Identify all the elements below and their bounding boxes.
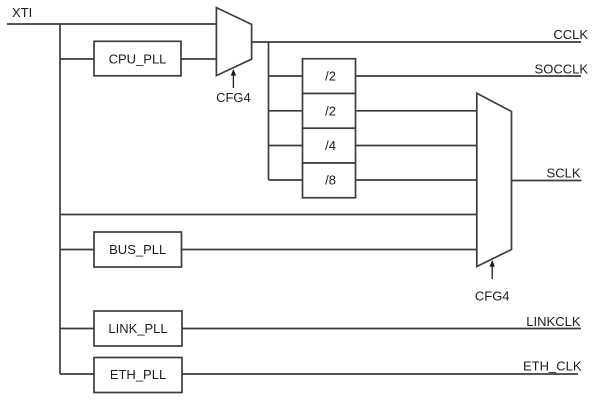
- svg-text:/8: /8: [325, 173, 336, 188]
- wire ETH_CLK net: [182, 373, 578, 375]
- wire XTI trunk vertical: [59, 24, 61, 374]
- wire LINKCLK net: [182, 328, 581, 330]
- block divider /2: [303, 59, 356, 94]
- mux U1: [216, 8, 251, 76]
- block CPU_PLL: [94, 41, 181, 76]
- arrow CFG4 into mux U1: [231, 69, 236, 88]
- block BUS_PLL: [94, 232, 182, 267]
- block ETH_PLL: [94, 358, 182, 393]
- wire BUS_PLL output: [182, 249, 477, 251]
- block divider /8: [303, 163, 356, 198]
- wire CPU_PLL output: [181, 58, 216, 60]
- block LINK_PLL: [94, 311, 182, 346]
- svg-text:/2: /2: [325, 69, 336, 84]
- svg-text:/4: /4: [325, 138, 336, 153]
- wire XTI to mux U2: [60, 214, 477, 216]
- wire divider /8 output: [356, 179, 477, 181]
- svg-text:SOCCLK: SOCCLK: [535, 62, 589, 77]
- wire XTI top: [7, 23, 216, 25]
- wire BUS_PLL input: [60, 249, 94, 251]
- wire ETH_PLL input: [60, 373, 94, 375]
- svg-text:CCLK: CCLK: [553, 27, 588, 42]
- svg-text:CPU_PLL: CPU_PLL: [109, 51, 167, 66]
- svg-text:ETH_CLK: ETH_CLK: [523, 359, 582, 374]
- mux U2: [477, 93, 512, 266]
- svg-text:LINK_PLL: LINK_PLL: [108, 321, 167, 336]
- arrow CFG4 into mux U2: [490, 260, 495, 279]
- wire CCLK net: [252, 41, 581, 43]
- wire divider /2 input: [269, 75, 303, 77]
- svg-text:BUS_PLL: BUS_PLL: [109, 242, 166, 257]
- wire SOCCLK net: [356, 75, 582, 77]
- wire CPU_PLL input: [60, 58, 94, 60]
- wire SCLK net: [512, 180, 582, 182]
- svg-text:SCLK: SCLK: [547, 166, 581, 181]
- wire divider /4 output: [356, 145, 477, 147]
- wire divider /2b output: [356, 110, 477, 112]
- svg-text:XTI: XTI: [12, 5, 32, 20]
- svg-text:ETH_PLL: ETH_PLL: [110, 367, 166, 382]
- svg-text:CFG4: CFG4: [216, 90, 251, 105]
- wire divider /8 input: [269, 179, 303, 181]
- wire divider /2b input: [269, 110, 303, 112]
- svg-text:CFG4: CFG4: [475, 289, 510, 304]
- block divider /4: [303, 128, 356, 163]
- svg-text:/2: /2: [325, 103, 336, 118]
- svg-text:LINKCLK: LINKCLK: [526, 314, 581, 329]
- wire divider /4 input: [269, 145, 303, 147]
- wire divider bus vertical: [268, 42, 270, 180]
- block divider /2b: [303, 94, 356, 129]
- wire LINK_PLL input: [60, 328, 94, 330]
